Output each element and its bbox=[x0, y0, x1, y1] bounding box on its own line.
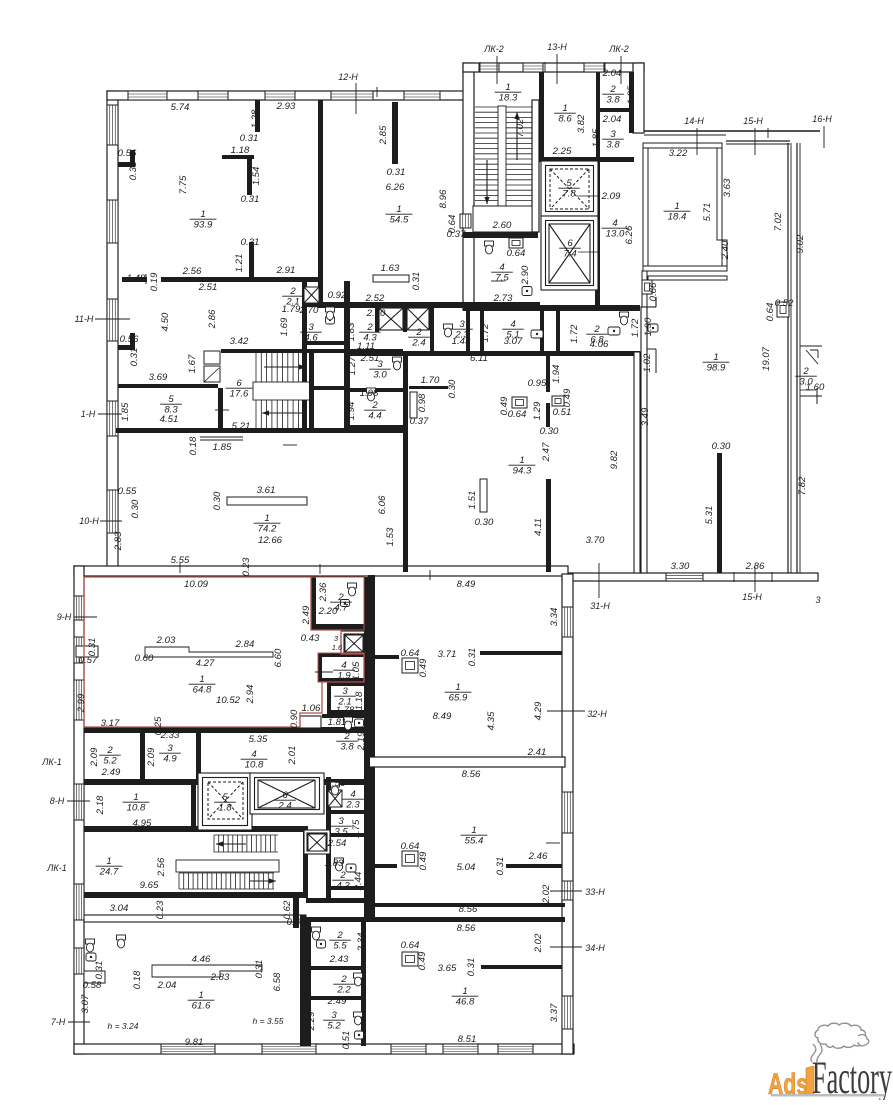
svg-text:0.31: 0.31 bbox=[466, 958, 477, 977]
svg-text:2: 2 bbox=[593, 324, 600, 335]
svg-text:4.29: 4.29 bbox=[533, 701, 544, 720]
svg-text:17.6: 17.6 bbox=[230, 389, 249, 400]
svg-text:5.2: 5.2 bbox=[103, 756, 117, 767]
svg-text:4: 4 bbox=[499, 262, 504, 273]
svg-text:1.51: 1.51 bbox=[467, 491, 478, 510]
svg-text:10-Н: 10-Н bbox=[79, 516, 99, 526]
svg-text:4.11: 4.11 bbox=[533, 518, 544, 536]
svg-text:0.60: 0.60 bbox=[135, 653, 154, 664]
svg-text:1.9: 1.9 bbox=[337, 671, 351, 682]
svg-text:10.09: 10.09 bbox=[184, 579, 209, 590]
svg-text:2.49: 2.49 bbox=[301, 605, 312, 625]
svg-text:2.60: 2.60 bbox=[492, 220, 512, 231]
svg-text:4.6: 4.6 bbox=[304, 333, 318, 344]
svg-text:0.30: 0.30 bbox=[130, 499, 141, 518]
svg-text:1.94: 1.94 bbox=[346, 402, 357, 421]
svg-text:1: 1 bbox=[471, 825, 476, 836]
svg-text:1: 1 bbox=[106, 856, 111, 867]
svg-text:8.6: 8.6 bbox=[558, 114, 572, 125]
svg-text:5.21: 5.21 bbox=[232, 421, 251, 432]
svg-text:7.02: 7.02 bbox=[515, 118, 526, 137]
svg-text:3.8: 3.8 bbox=[606, 95, 620, 106]
svg-text:5: 5 bbox=[566, 178, 572, 189]
svg-text:6.60: 6.60 bbox=[273, 648, 284, 667]
svg-text:1.67: 1.67 bbox=[187, 354, 198, 373]
svg-text:2.46: 2.46 bbox=[528, 851, 548, 862]
svg-text:19.07: 19.07 bbox=[761, 346, 772, 371]
svg-text:1.48: 1.48 bbox=[127, 273, 146, 284]
svg-text:3.17: 3.17 bbox=[101, 718, 120, 729]
svg-text:2.84: 2.84 bbox=[235, 639, 255, 650]
svg-text:3.69: 3.69 bbox=[149, 372, 168, 383]
svg-text:8-Н: 8-Н bbox=[50, 796, 65, 806]
svg-text:10.8: 10.8 bbox=[127, 803, 146, 814]
svg-text:2.93: 2.93 bbox=[276, 101, 296, 112]
svg-text:2: 2 bbox=[609, 84, 616, 95]
svg-text:7.8: 7.8 bbox=[562, 189, 576, 200]
svg-text:1.63: 1.63 bbox=[381, 263, 400, 274]
svg-text:0.31: 0.31 bbox=[495, 857, 506, 876]
svg-text:6.06: 6.06 bbox=[377, 495, 388, 514]
svg-text:8.51: 8.51 bbox=[458, 1034, 477, 1045]
svg-text:1: 1 bbox=[713, 352, 718, 363]
svg-text:2.91: 2.91 bbox=[276, 265, 296, 276]
svg-text:0.51: 0.51 bbox=[553, 407, 572, 418]
svg-text:0.31: 0.31 bbox=[467, 648, 478, 667]
svg-text:1.83: 1.83 bbox=[346, 322, 357, 341]
svg-text:0.31: 0.31 bbox=[94, 961, 105, 980]
svg-text:1.90: 1.90 bbox=[643, 317, 654, 336]
svg-text:2.4: 2.4 bbox=[411, 338, 425, 349]
svg-text:ЛК-2: ЛК-2 bbox=[483, 44, 503, 54]
svg-text:0.31: 0.31 bbox=[411, 272, 422, 291]
svg-text:3.42: 3.42 bbox=[230, 336, 249, 347]
svg-text:2: 2 bbox=[802, 366, 809, 377]
svg-text:3: 3 bbox=[377, 359, 383, 370]
svg-text:0.43: 0.43 bbox=[301, 633, 320, 644]
svg-text:1: 1 bbox=[200, 209, 205, 220]
svg-text:2: 2 bbox=[106, 745, 113, 756]
svg-text:18.4: 18.4 bbox=[668, 212, 687, 223]
svg-text:2.36: 2.36 bbox=[318, 582, 329, 602]
svg-text:6.11: 6.11 bbox=[470, 353, 488, 364]
svg-text:0.30: 0.30 bbox=[212, 491, 223, 510]
svg-text:2.3: 2.3 bbox=[345, 800, 360, 811]
svg-text:2.2: 2.2 bbox=[336, 985, 351, 996]
svg-text:0.64: 0.64 bbox=[401, 648, 420, 659]
svg-text:3: 3 bbox=[342, 686, 348, 697]
svg-text:2.34: 2.34 bbox=[356, 933, 367, 953]
svg-text:2.03: 2.03 bbox=[156, 635, 176, 646]
svg-text:1.18: 1.18 bbox=[354, 691, 365, 710]
svg-text:1.18: 1.18 bbox=[231, 145, 250, 156]
svg-text:0.64: 0.64 bbox=[401, 841, 420, 852]
svg-text:1.6: 1.6 bbox=[332, 643, 343, 652]
svg-text:1: 1 bbox=[462, 986, 467, 997]
svg-text:2: 2 bbox=[337, 592, 344, 603]
svg-text:9-Н: 9-Н bbox=[57, 612, 72, 622]
svg-text:11-Н: 11-Н bbox=[75, 314, 94, 324]
svg-text:1: 1 bbox=[198, 990, 203, 1001]
svg-text:0.31: 0.31 bbox=[129, 348, 140, 367]
svg-text:2.49: 2.49 bbox=[101, 767, 121, 778]
svg-text:1.69: 1.69 bbox=[279, 317, 290, 336]
svg-text:10.52: 10.52 bbox=[216, 695, 241, 706]
svg-text:3.82: 3.82 bbox=[576, 114, 587, 133]
svg-text:0.66: 0.66 bbox=[648, 282, 659, 301]
svg-text:1.27: 1.27 bbox=[347, 356, 358, 375]
svg-text:4: 4 bbox=[251, 749, 256, 760]
svg-text:0.31: 0.31 bbox=[87, 638, 98, 657]
svg-text:3.07: 3.07 bbox=[504, 336, 523, 347]
svg-text:1.60: 1.60 bbox=[806, 382, 825, 393]
svg-text:2.19: 2.19 bbox=[356, 731, 367, 751]
svg-text:9.81: 9.81 bbox=[185, 1037, 204, 1048]
svg-text:8.56: 8.56 bbox=[462, 769, 481, 780]
svg-text:2.73: 2.73 bbox=[493, 293, 513, 304]
svg-text:98.9: 98.9 bbox=[707, 363, 726, 374]
svg-text:2.54: 2.54 bbox=[327, 838, 347, 849]
svg-text:24.7: 24.7 bbox=[99, 867, 119, 878]
svg-text:2.47: 2.47 bbox=[541, 442, 552, 462]
svg-text:1.85: 1.85 bbox=[120, 402, 131, 421]
svg-text:6.26: 6.26 bbox=[624, 225, 635, 244]
svg-text:2.56: 2.56 bbox=[182, 266, 202, 277]
svg-text:2.09: 2.09 bbox=[89, 747, 100, 767]
svg-text:7.02: 7.02 bbox=[773, 212, 784, 231]
svg-text:1.85: 1.85 bbox=[591, 128, 602, 147]
svg-text:4.27: 4.27 bbox=[196, 658, 215, 669]
svg-text:2.09: 2.09 bbox=[146, 747, 157, 767]
svg-text:2.04: 2.04 bbox=[602, 114, 622, 125]
svg-text:5.74: 5.74 bbox=[171, 102, 190, 113]
svg-text:4.06: 4.06 bbox=[590, 339, 609, 350]
svg-text:3.49: 3.49 bbox=[640, 407, 651, 426]
svg-text:8.56: 8.56 bbox=[459, 904, 478, 915]
svg-text:4.95: 4.95 bbox=[133, 818, 152, 829]
svg-text:6: 6 bbox=[236, 378, 242, 389]
svg-text:0.64: 0.64 bbox=[507, 248, 526, 259]
svg-text:3.70: 3.70 bbox=[586, 535, 605, 546]
svg-text:2.52: 2.52 bbox=[365, 293, 385, 304]
svg-text:2.99: 2.99 bbox=[76, 693, 87, 713]
svg-text:4.9: 4.9 bbox=[163, 754, 177, 765]
svg-text:0.43: 0.43 bbox=[287, 917, 306, 928]
svg-text:1: 1 bbox=[455, 682, 460, 693]
svg-text:3: 3 bbox=[338, 816, 344, 827]
svg-text:3: 3 bbox=[167, 743, 173, 754]
svg-text:0.18: 0.18 bbox=[188, 436, 199, 455]
svg-text:ЛК-2: ЛК-2 bbox=[608, 44, 628, 54]
svg-text:2: 2 bbox=[415, 327, 422, 338]
svg-text:33-Н: 33-Н bbox=[585, 887, 605, 897]
svg-text:15-Н: 15-Н bbox=[742, 592, 762, 602]
svg-text:5.31: 5.31 bbox=[704, 506, 715, 525]
svg-text:2: 2 bbox=[343, 731, 350, 742]
svg-text:1.29: 1.29 bbox=[532, 401, 543, 420]
svg-text:1-Н: 1-Н bbox=[81, 409, 96, 419]
svg-text:2.41: 2.41 bbox=[527, 747, 547, 758]
svg-text:1.85: 1.85 bbox=[626, 85, 637, 104]
svg-text:1.43: 1.43 bbox=[452, 336, 471, 347]
svg-text:3: 3 bbox=[308, 322, 314, 333]
svg-text:7.5: 7.5 bbox=[495, 273, 509, 284]
svg-text:3.5: 3.5 bbox=[334, 827, 348, 838]
svg-text:7-Н: 7-Н bbox=[51, 1017, 66, 1027]
svg-text:2.50: 2.50 bbox=[366, 308, 386, 319]
svg-text:2.18: 2.18 bbox=[95, 795, 106, 815]
svg-text:0.90: 0.90 bbox=[289, 709, 300, 728]
svg-text:6.58: 6.58 bbox=[272, 972, 283, 991]
svg-text:10.8: 10.8 bbox=[245, 760, 264, 771]
svg-text:1.78: 1.78 bbox=[336, 705, 355, 716]
svg-text:2: 2 bbox=[366, 322, 373, 333]
svg-text:1.02: 1.02 bbox=[642, 353, 653, 372]
svg-text:12-Н: 12-Н bbox=[338, 72, 358, 82]
svg-text:0.31: 0.31 bbox=[241, 194, 260, 205]
svg-text:1.21: 1.21 bbox=[234, 254, 245, 273]
svg-text:1: 1 bbox=[264, 513, 269, 524]
svg-text:1.8: 1.8 bbox=[218, 803, 232, 814]
svg-text:3.63: 3.63 bbox=[722, 178, 733, 197]
svg-text:0.23: 0.23 bbox=[155, 900, 166, 919]
svg-text:0.30: 0.30 bbox=[447, 379, 458, 398]
svg-text:h = 3.55: h = 3.55 bbox=[253, 1016, 284, 1026]
svg-text:3.22: 3.22 bbox=[669, 148, 688, 159]
svg-text:1.85: 1.85 bbox=[213, 442, 232, 453]
svg-text:0.31: 0.31 bbox=[240, 133, 259, 144]
svg-text:3.8: 3.8 bbox=[606, 140, 620, 151]
svg-text:2.20: 2.20 bbox=[318, 606, 338, 617]
svg-text:0.30: 0.30 bbox=[475, 517, 494, 528]
svg-text:13-Н: 13-Н bbox=[547, 42, 567, 52]
svg-text:0.23: 0.23 bbox=[241, 557, 252, 576]
svg-text:4.4: 4.4 bbox=[368, 411, 381, 422]
svg-text:3.71: 3.71 bbox=[438, 649, 457, 660]
svg-text:3: 3 bbox=[610, 129, 616, 140]
svg-text:2.01: 2.01 bbox=[287, 746, 298, 766]
svg-text:8.49: 8.49 bbox=[457, 579, 476, 590]
svg-text:5.2: 5.2 bbox=[327, 1021, 341, 1032]
svg-text:2: 2 bbox=[339, 870, 346, 881]
svg-text:4: 4 bbox=[350, 789, 355, 800]
svg-text:13.0: 13.0 bbox=[606, 229, 625, 240]
svg-text:2.25: 2.25 bbox=[552, 146, 572, 157]
svg-text:12.66: 12.66 bbox=[258, 535, 283, 546]
svg-text:7.82: 7.82 bbox=[797, 476, 808, 495]
svg-text:1.54: 1.54 bbox=[251, 167, 262, 186]
svg-text:3.37: 3.37 bbox=[549, 1003, 560, 1022]
svg-text:18.3: 18.3 bbox=[499, 93, 518, 104]
svg-text:Factory: Factory bbox=[812, 1052, 892, 1100]
svg-text:2.90: 2.90 bbox=[520, 265, 531, 285]
svg-text:2.09: 2.09 bbox=[601, 191, 621, 202]
svg-text:2.56: 2.56 bbox=[156, 857, 167, 877]
svg-text:1: 1 bbox=[519, 455, 524, 466]
svg-text:0.64: 0.64 bbox=[401, 940, 420, 951]
svg-text:2.44: 2.44 bbox=[353, 872, 364, 892]
svg-text:0.31: 0.31 bbox=[387, 167, 406, 178]
svg-text:61.6: 61.6 bbox=[192, 1001, 211, 1012]
svg-text:9.82: 9.82 bbox=[609, 450, 620, 469]
svg-text:1.28: 1.28 bbox=[250, 109, 261, 128]
svg-text:32-Н: 32-Н bbox=[587, 709, 607, 719]
svg-text:3.65: 3.65 bbox=[438, 963, 457, 974]
svg-text:5.71: 5.71 bbox=[702, 203, 713, 222]
svg-text:0.30: 0.30 bbox=[712, 441, 731, 452]
svg-text:0.92: 0.92 bbox=[328, 290, 347, 301]
svg-text:1.72: 1.72 bbox=[569, 324, 580, 343]
svg-text:1.83: 1.83 bbox=[325, 858, 344, 869]
svg-text:4.46: 4.46 bbox=[192, 954, 211, 965]
svg-text:0.37: 0.37 bbox=[410, 416, 429, 427]
svg-text:2.29: 2.29 bbox=[306, 1011, 317, 1031]
svg-text:64.8: 64.8 bbox=[193, 685, 212, 696]
svg-text:3: 3 bbox=[331, 1010, 337, 1021]
svg-text:0.64: 0.64 bbox=[508, 409, 527, 420]
svg-text:65.9: 65.9 bbox=[449, 693, 468, 704]
svg-text:6: 6 bbox=[282, 790, 288, 801]
svg-text:34-Н: 34-Н bbox=[585, 943, 605, 953]
svg-text:2.4: 2.4 bbox=[277, 801, 291, 812]
svg-text:31-Н: 31-Н bbox=[590, 601, 610, 611]
svg-text:5.5: 5.5 bbox=[333, 941, 347, 952]
svg-text:0.31: 0.31 bbox=[241, 237, 260, 248]
svg-text:4.50: 4.50 bbox=[160, 312, 171, 331]
svg-text:1.53: 1.53 bbox=[385, 527, 396, 546]
svg-text:0.31: 0.31 bbox=[128, 162, 139, 181]
svg-text:2.02: 2.02 bbox=[541, 884, 552, 904]
svg-text:3.8: 3.8 bbox=[340, 742, 354, 753]
svg-text:1.81: 1.81 bbox=[328, 717, 347, 728]
svg-text:1: 1 bbox=[199, 674, 204, 685]
svg-text:1: 1 bbox=[396, 204, 401, 215]
svg-text:5.35: 5.35 bbox=[249, 734, 268, 745]
svg-text:1.06: 1.06 bbox=[302, 703, 321, 714]
svg-text:0.98: 0.98 bbox=[417, 393, 428, 412]
svg-text:1: 1 bbox=[562, 103, 567, 114]
svg-text:2.51: 2.51 bbox=[198, 282, 218, 293]
svg-text:8.49: 8.49 bbox=[433, 711, 452, 722]
svg-text:0.30: 0.30 bbox=[540, 426, 559, 437]
svg-text:4: 4 bbox=[510, 319, 515, 330]
svg-text:h = 3.24: h = 3.24 bbox=[108, 1021, 139, 1031]
svg-text:ЛК-1: ЛК-1 bbox=[46, 863, 66, 873]
svg-text:3.34: 3.34 bbox=[549, 608, 560, 627]
svg-text:1.72: 1.72 bbox=[480, 323, 491, 342]
svg-text:14-Н: 14-Н bbox=[684, 116, 704, 126]
svg-text:2.94: 2.94 bbox=[245, 685, 256, 705]
svg-text:1.79: 1.79 bbox=[282, 304, 301, 315]
svg-text:ЛК-1: ЛК-1 bbox=[41, 757, 61, 767]
svg-text:2.33: 2.33 bbox=[160, 730, 180, 741]
svg-text:3.04: 3.04 bbox=[110, 903, 129, 914]
svg-text:7.4: 7.4 bbox=[563, 249, 576, 260]
svg-text:3: 3 bbox=[459, 319, 465, 330]
svg-text:1.94: 1.94 bbox=[551, 365, 562, 384]
svg-text:0.52: 0.52 bbox=[775, 298, 794, 309]
svg-text:2.86: 2.86 bbox=[745, 561, 765, 572]
svg-text:94.3: 94.3 bbox=[513, 466, 532, 477]
svg-text:7.75: 7.75 bbox=[178, 175, 189, 194]
svg-text:3: 3 bbox=[815, 595, 820, 605]
svg-text:0.95: 0.95 bbox=[528, 378, 547, 389]
svg-text:0.19: 0.19 bbox=[149, 272, 160, 291]
svg-text:8.96: 8.96 bbox=[438, 189, 449, 208]
svg-text:3.0: 3.0 bbox=[373, 370, 387, 381]
svg-text:2: 2 bbox=[289, 286, 296, 297]
svg-text:54.5: 54.5 bbox=[390, 215, 409, 226]
svg-text:5.04: 5.04 bbox=[457, 862, 476, 873]
svg-text:3.30: 3.30 bbox=[671, 561, 690, 572]
svg-text:4.35: 4.35 bbox=[486, 711, 497, 730]
svg-text:2.49: 2.49 bbox=[327, 996, 347, 1007]
svg-text:0.49: 0.49 bbox=[417, 951, 428, 970]
svg-text:0.56: 0.56 bbox=[118, 148, 137, 159]
svg-text:0.18: 0.18 bbox=[132, 970, 143, 989]
svg-text:3.07: 3.07 bbox=[80, 994, 91, 1013]
svg-text:2: 2 bbox=[336, 930, 343, 941]
svg-text:1: 1 bbox=[674, 201, 679, 212]
svg-text:2.86: 2.86 bbox=[207, 309, 218, 329]
svg-text:2.85: 2.85 bbox=[378, 125, 389, 145]
svg-text:5: 5 bbox=[168, 394, 174, 405]
svg-text:2.40: 2.40 bbox=[720, 240, 731, 260]
svg-text:2.83: 2.83 bbox=[113, 531, 124, 551]
svg-text:1.72: 1.72 bbox=[630, 318, 641, 337]
svg-text:74.2: 74.2 bbox=[258, 524, 277, 535]
svg-text:0.49: 0.49 bbox=[418, 851, 429, 870]
svg-text:4: 4 bbox=[612, 218, 617, 229]
svg-text:0.56: 0.56 bbox=[120, 334, 139, 345]
svg-text:0.55: 0.55 bbox=[118, 486, 137, 497]
svg-text:1.05: 1.05 bbox=[351, 661, 362, 680]
svg-text:2.02: 2.02 bbox=[533, 933, 544, 953]
svg-text:55.4: 55.4 bbox=[465, 836, 484, 847]
svg-text:15-Н: 15-Н bbox=[743, 116, 763, 126]
svg-text:5: 5 bbox=[222, 792, 228, 803]
svg-text:4.3: 4.3 bbox=[336, 881, 350, 892]
svg-text:0.57: 0.57 bbox=[79, 655, 98, 666]
svg-text:0.49: 0.49 bbox=[418, 658, 429, 677]
svg-text:2.43: 2.43 bbox=[329, 954, 349, 965]
svg-text:0.37: 0.37 bbox=[447, 229, 466, 240]
svg-text:2: 2 bbox=[340, 974, 347, 985]
svg-text:46.8: 46.8 bbox=[456, 997, 475, 1008]
svg-text:4.51: 4.51 bbox=[160, 414, 179, 425]
svg-text:1: 1 bbox=[505, 82, 510, 93]
svg-text:4: 4 bbox=[341, 660, 346, 671]
svg-text:0.49: 0.49 bbox=[562, 388, 573, 407]
svg-text:0.51: 0.51 bbox=[341, 1031, 352, 1050]
svg-text:16-Н: 16-Н bbox=[812, 114, 832, 124]
svg-text:1.98: 1.98 bbox=[360, 388, 379, 399]
svg-text:6: 6 bbox=[567, 238, 573, 249]
svg-text:2.70: 2.70 bbox=[299, 305, 319, 316]
svg-text:8.56: 8.56 bbox=[457, 923, 476, 934]
svg-text:0.58: 0.58 bbox=[83, 980, 102, 991]
svg-text:2.83: 2.83 bbox=[210, 972, 230, 983]
svg-text:1.56: 1.56 bbox=[327, 778, 346, 789]
svg-text:93.9: 93.9 bbox=[194, 220, 213, 231]
svg-text:2: 2 bbox=[371, 400, 378, 411]
svg-text:3.61: 3.61 bbox=[257, 485, 276, 496]
svg-text:9.65: 9.65 bbox=[140, 880, 159, 891]
svg-text:1: 1 bbox=[133, 792, 138, 803]
svg-text:0.31: 0.31 bbox=[254, 960, 265, 979]
svg-text:2.04: 2.04 bbox=[157, 980, 177, 991]
svg-text:1.75: 1.75 bbox=[351, 819, 362, 838]
